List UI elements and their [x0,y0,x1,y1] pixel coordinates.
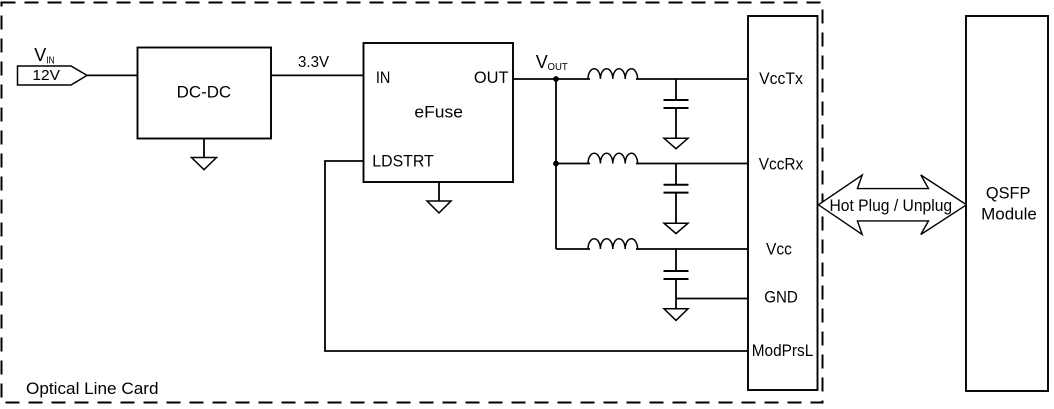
hot plug double arrow [818,175,966,235]
svg-text:VccRx: VccRx [759,154,804,173]
capacitor C3 [675,249,677,271]
input flag 12V [18,66,88,85]
svg-text:IN: IN [376,68,391,87]
Optical Line Card dashed boundary [2,3,823,403]
ground C1 [664,138,688,148]
inductor L1 [588,69,638,79]
svg-text:OUT: OUT [548,62,568,73]
wire LDSTRT to ModPrsL [325,161,748,351]
svg-text:ModPrsL: ModPrsL [752,341,814,360]
connector block [748,16,818,390]
ground C3 [664,309,688,321]
svg-text:GND: GND [764,287,798,306]
svg-text:Optical Line Card: Optical Line Card [26,379,159,398]
wire GND row to connector [676,298,748,300]
svg-text:Vcc: Vcc [766,239,792,258]
eFuse block [364,43,514,182]
wire flag to DC-DC [87,74,138,76]
svg-text:DC-DC: DC-DC [177,82,232,101]
svg-text:V: V [536,52,548,72]
ground under DC-DC [203,139,205,158]
svg-text:VccTx: VccTx [759,69,803,88]
capacitor C1 [675,79,677,100]
junction dot VOUT [553,76,559,82]
wire 3.3V DC-DC to eFuse [271,74,364,76]
svg-text:OUT: OUT [474,68,509,87]
svg-text:V: V [34,45,46,65]
inductor L2 [588,153,638,163]
svg-text:12V: 12V [32,67,60,84]
ground C2 [664,223,688,233]
svg-text:LDSTRT: LDSTRT [372,152,433,171]
svg-text:eFuse: eFuse [414,103,463,122]
svg-text:QSFP: QSFP [986,184,1031,203]
inductor L3 [588,239,638,249]
svg-text:3.3V: 3.3V [298,54,329,71]
vertical bus from VOUT down [555,79,557,249]
wire row 3 to connector [556,248,590,250]
DC-DC converter block [138,48,272,139]
ground under eFuse [438,182,440,201]
svg-text:IN: IN [46,56,54,67]
junction dot row 2 [553,161,559,167]
svg-text:Module: Module [981,204,1037,223]
svg-text:Hot Plug / Unplug: Hot Plug / Unplug [830,196,953,215]
wire eFuse OUT to connector (row 1) [513,78,590,80]
QSFP Module block [966,16,1048,391]
capacitor C2 [675,164,677,185]
wire row 2 to connector [556,163,590,165]
